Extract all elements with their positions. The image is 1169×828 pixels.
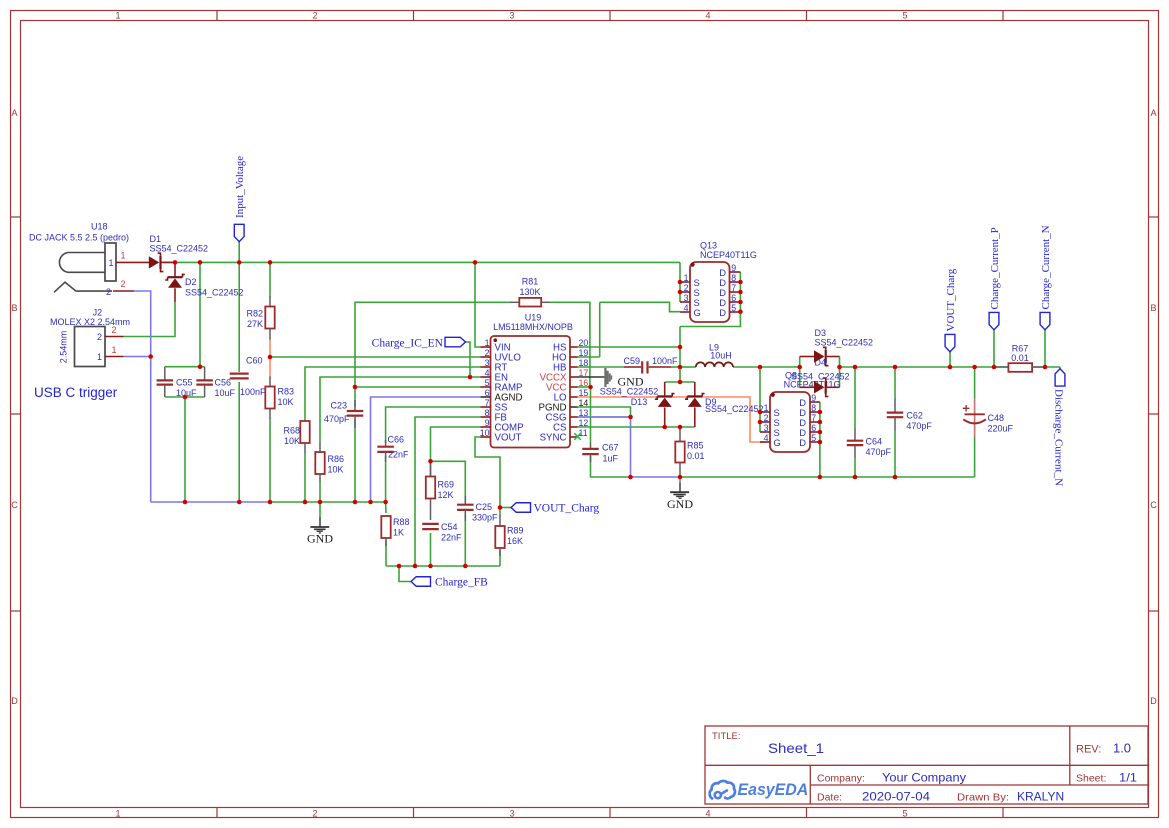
svg-text:VOUT: VOUT xyxy=(495,433,522,444)
wire R82 top xyxy=(269,262,271,296)
svg-text:6: 6 xyxy=(485,388,490,398)
diode D1 xyxy=(149,234,208,272)
wire switch node riser xyxy=(679,327,681,383)
junction at 895,477 xyxy=(893,475,898,480)
svg-text:3: 3 xyxy=(684,293,689,303)
no-connect X on SYNC pin 11 xyxy=(574,433,580,440)
junction at 185,502 xyxy=(183,500,188,505)
svg-text:Drawn By:: Drawn By: xyxy=(957,792,1009,804)
svg-text:D: D xyxy=(719,307,726,318)
junction at 819.9,422 xyxy=(818,420,823,425)
svg-text:U18: U18 xyxy=(91,222,108,232)
junction at 819.9,412 xyxy=(818,410,823,415)
junction at 994,367 xyxy=(992,365,997,370)
svg-text:D2: D2 xyxy=(185,277,197,287)
svg-text:3: 3 xyxy=(485,358,490,368)
wire VOUT_Charg flag lead xyxy=(500,507,511,509)
diode D4 xyxy=(791,358,850,397)
wire SS row to C66 xyxy=(386,407,481,443)
wire AGND purple row xyxy=(371,397,481,502)
junction at 819.9,442 xyxy=(818,440,823,445)
svg-text:D13: D13 xyxy=(631,397,648,407)
svg-text:Company:: Company: xyxy=(817,773,865,785)
svg-text:10K: 10K xyxy=(328,465,344,475)
junction at 430.5,461.3 xyxy=(428,459,433,464)
svg-text:Q13: Q13 xyxy=(700,240,717,250)
wire VOUT path xyxy=(475,437,500,515)
junction at 239.2,502 xyxy=(237,500,242,505)
svg-text:8: 8 xyxy=(811,403,816,413)
junction at 270,502 xyxy=(268,500,273,505)
wire D3 right vert xyxy=(839,357,841,388)
junction at 680,477 xyxy=(678,475,683,480)
junction at 839.5,367 xyxy=(837,365,842,370)
wire UVLO row xyxy=(270,356,481,358)
wire C66 bottom xyxy=(385,456,387,502)
capacitor C66 xyxy=(377,435,409,463)
svg-text:1K: 1K xyxy=(393,528,404,538)
junction at 270,357 xyxy=(268,355,273,360)
junction at 974.6,367 xyxy=(972,365,977,370)
svg-text:22nF: 22nF xyxy=(441,533,462,543)
junction at 680,382 xyxy=(678,380,683,385)
svg-text:9: 9 xyxy=(811,393,816,403)
svg-text:13: 13 xyxy=(579,408,589,418)
wire R81 left riser xyxy=(355,302,510,387)
wire C64 drop xyxy=(854,367,856,428)
svg-text:2: 2 xyxy=(111,325,116,335)
resistor R68 xyxy=(283,421,309,453)
svg-text:G: G xyxy=(774,437,781,448)
wire Q8 source riser xyxy=(759,367,761,432)
wire L9 left lead xyxy=(680,366,696,368)
svg-text:D4: D4 xyxy=(815,358,827,368)
wire R81 right down to VCC xyxy=(550,302,590,387)
svg-text:3: 3 xyxy=(764,423,769,433)
resistor R85 xyxy=(675,427,704,477)
svg-text:C59: C59 xyxy=(623,356,640,366)
junction at 760,412 xyxy=(758,410,763,415)
wire HO riser xyxy=(599,302,601,357)
svg-text:R68: R68 xyxy=(283,426,300,436)
Q13 pin 8 D xyxy=(730,281,741,283)
svg-text:330pF: 330pF xyxy=(472,513,498,523)
wire Q13 drain bus xyxy=(680,272,740,327)
svg-text:R81: R81 xyxy=(522,277,539,287)
svg-text:D1: D1 xyxy=(150,234,162,244)
wire R82-R83 orange link xyxy=(269,339,271,377)
svg-text:470pF: 470pF xyxy=(906,421,932,431)
svg-text:Discharge_Current_N: Discharge_Current_N xyxy=(1053,389,1065,486)
svg-text:R67: R67 xyxy=(1012,344,1029,354)
junction at 740.4,302 xyxy=(738,300,743,305)
svg-text:C55: C55 xyxy=(176,377,193,387)
wire C25 bottom xyxy=(464,514,466,566)
junction at 500,507.5 xyxy=(498,505,503,510)
wire R68 bottom xyxy=(304,452,306,502)
U19 pin 2 UVLO xyxy=(481,356,491,358)
svg-text:R69: R69 xyxy=(438,480,455,490)
junction at 819.9,477 xyxy=(818,475,823,480)
svg-text:220uF: 220uF xyxy=(988,423,1014,433)
diode D2 xyxy=(165,262,243,302)
inductor L9 xyxy=(696,343,733,368)
svg-text:Sheet:: Sheet: xyxy=(1076,773,1106,785)
svg-text:5: 5 xyxy=(811,433,816,443)
svg-text:7: 7 xyxy=(731,283,736,293)
wire ground rail purple segment xyxy=(151,501,270,503)
diode D3 xyxy=(800,328,873,366)
junction at 370.5,502 xyxy=(368,500,373,505)
U19 pin 11 SYNC xyxy=(570,436,578,438)
svg-text:5: 5 xyxy=(902,10,907,20)
svg-text:14: 14 xyxy=(579,398,589,408)
junction at 819.9,432 xyxy=(818,430,823,435)
wire C55 C56 bottom stem xyxy=(184,397,186,502)
Q13 pin 4 G xyxy=(680,311,690,313)
svg-text:C60: C60 xyxy=(246,356,263,366)
junction at 680,282 xyxy=(678,280,683,285)
junction at 385.6,502 xyxy=(383,500,388,505)
net flag Input_Voltage xyxy=(234,156,246,242)
svg-text:1uF: 1uF xyxy=(603,454,619,464)
wire C48 bottom xyxy=(974,437,976,477)
svg-text:2.54mm: 2.54mm xyxy=(59,331,69,364)
svg-text:D: D xyxy=(799,437,806,448)
svg-text:100nF: 100nF xyxy=(240,387,266,397)
svg-text:Input_Voltage: Input_Voltage xyxy=(234,156,246,218)
capacitor C23 xyxy=(324,400,363,428)
wire C59 right to switch node xyxy=(671,366,680,368)
wire R69 to C25 branch xyxy=(431,461,466,502)
Q13 pin 5 D xyxy=(730,311,741,313)
net flag Charge_Current_N xyxy=(1040,225,1052,329)
Q13 pin 3 S xyxy=(680,301,690,303)
svg-text:EasyEDA: EasyEDA xyxy=(738,781,809,799)
junction at 950,367 xyxy=(948,365,953,370)
wire L9 right to D3 xyxy=(733,366,800,368)
wire LO orange to Q8 gate xyxy=(578,397,765,442)
wire C62 bottom xyxy=(894,431,896,477)
svg-text:R85: R85 xyxy=(687,441,704,451)
svg-text:12K: 12K xyxy=(438,490,454,500)
svg-text:B: B xyxy=(1150,303,1156,313)
wire FB row xyxy=(415,417,481,566)
capacitor C67 xyxy=(582,443,618,464)
wire R88 bottom xyxy=(385,540,387,566)
resistor R69 xyxy=(426,461,454,500)
wire output gnd rail xyxy=(680,476,975,478)
U19 pin 5 RAMP xyxy=(481,386,491,388)
U19 pin 4 EN xyxy=(481,376,491,378)
wire diode cathode rail xyxy=(665,381,695,383)
junction at 740.4,292 xyxy=(738,290,743,295)
U19 pin 3 RT xyxy=(481,366,491,368)
junction at 680,427 xyxy=(678,425,683,430)
svg-text:27K: 27K xyxy=(247,319,263,329)
Q8 pin 2 S xyxy=(760,421,770,423)
svg-text:J2: J2 xyxy=(93,307,103,317)
svg-text:11: 11 xyxy=(579,428,588,438)
svg-text:C: C xyxy=(1150,500,1157,510)
svg-text:SS54_C22452: SS54_C22452 xyxy=(705,404,764,414)
svg-text:C23: C23 xyxy=(330,401,347,411)
svg-text:1/1: 1/1 xyxy=(1119,771,1137,785)
svg-text:SYNC: SYNC xyxy=(540,433,567,444)
svg-text:R88: R88 xyxy=(393,517,410,527)
junction at 680,292 xyxy=(678,290,683,295)
U19 pin 18 HB xyxy=(570,366,578,368)
svg-text:7: 7 xyxy=(811,413,816,423)
wire RT row to R68 xyxy=(305,367,481,421)
svg-text:19: 19 xyxy=(579,348,589,358)
wire C60 bottom xyxy=(238,382,240,502)
net flag Charge_IC_EN xyxy=(372,337,466,349)
resistor R89 xyxy=(495,515,523,556)
resistor R67 xyxy=(994,344,1045,372)
junction at 680,367 xyxy=(678,365,683,370)
svg-text:3: 3 xyxy=(509,808,514,818)
wire gate jog to Q13 G xyxy=(600,302,680,311)
wire HS row xyxy=(578,346,681,348)
wire R86 bottom xyxy=(319,482,321,502)
svg-text:Your Company: Your Company xyxy=(882,771,966,785)
junction at 270,262.4 xyxy=(268,260,273,265)
wire C54 bottom xyxy=(430,533,432,566)
title block xyxy=(705,726,1148,804)
capacitor C60 xyxy=(230,356,266,397)
ground symbol GND at left rail xyxy=(307,502,333,545)
svg-text:8: 8 xyxy=(485,408,490,418)
junction at 355,387 xyxy=(353,385,358,390)
net flag Charge_FB xyxy=(411,576,488,588)
Q13 pin 6 D xyxy=(730,301,741,303)
svg-text:1.0: 1.0 xyxy=(1113,742,1131,756)
wire COMP row to R69 xyxy=(431,427,481,477)
svg-text:6: 6 xyxy=(731,293,736,303)
svg-text:1: 1 xyxy=(97,352,102,362)
svg-text:D: D xyxy=(11,696,18,706)
transistor Q13 NCEP40T11G xyxy=(680,240,757,322)
svg-text:Charge_Current_N: Charge_Current_N xyxy=(1040,225,1052,309)
U19 pin 10 VOUT xyxy=(481,436,491,438)
junction at 399,566 xyxy=(397,564,402,569)
svg-text:1: 1 xyxy=(115,10,120,20)
junction at 740.4,311.7 xyxy=(738,309,743,314)
U19 pin 20 HS xyxy=(570,346,578,348)
svg-text:D: D xyxy=(1150,696,1157,706)
U19 pin 14 PGND xyxy=(570,406,578,408)
svg-text:A: A xyxy=(1150,108,1156,118)
ground flag GND arrow at VCCX xyxy=(578,368,644,389)
svg-text:130K: 130K xyxy=(519,287,540,297)
junction at 305,502 xyxy=(303,500,308,505)
wire C55-C56 top stem xyxy=(199,262,201,366)
EasyEDA logo xyxy=(710,781,809,799)
svg-text:SS54_C22452: SS54_C22452 xyxy=(791,371,850,381)
svg-text:0.01: 0.01 xyxy=(687,451,705,461)
junction at 799.7,367 xyxy=(797,365,802,370)
svg-text:GND: GND xyxy=(307,531,333,545)
svg-text:R86: R86 xyxy=(328,454,345,464)
svg-text:SS54_C22452: SS54_C22452 xyxy=(815,337,874,347)
U19 pin 8 FB xyxy=(481,416,491,418)
svg-text:C54: C54 xyxy=(441,522,458,532)
wire R83 bottom xyxy=(269,418,271,502)
resistor R81 xyxy=(510,277,550,307)
wire input rail from D1 to Q13 xyxy=(163,261,680,263)
junction at 430.5,566 xyxy=(428,564,433,569)
svg-text:R83: R83 xyxy=(278,387,295,397)
capacitor C64 xyxy=(847,428,892,458)
wire gnd rail purple segment xyxy=(631,476,681,478)
capacitor C56 xyxy=(196,367,235,398)
junction at 475,262.4 xyxy=(473,260,478,265)
svg-text:Date:: Date: xyxy=(817,792,842,804)
svg-text:470pF: 470pF xyxy=(866,447,892,457)
svg-text:4: 4 xyxy=(764,433,769,443)
Q13 pin 7 D xyxy=(730,291,741,293)
svg-text:C: C xyxy=(11,500,18,510)
wire C60 top xyxy=(238,262,240,372)
wire R69-C54 link xyxy=(430,497,432,520)
wire CSG purple xyxy=(578,416,631,418)
svg-text:SS54_C22452: SS54_C22452 xyxy=(150,244,209,254)
svg-text:10K: 10K xyxy=(284,436,300,446)
svg-text:10uH: 10uH xyxy=(710,351,732,361)
junction at 415,566 xyxy=(413,564,418,569)
net flag VOUT_Charg vertical xyxy=(945,268,957,352)
svg-text:2: 2 xyxy=(764,413,769,423)
wire ground rail green segment xyxy=(270,501,386,503)
Q13 pin 9 D xyxy=(730,271,741,273)
junction at 465.3,566 xyxy=(463,564,468,569)
svg-text:SS54_C22452: SS54_C22452 xyxy=(185,287,244,297)
junction at 895,367 xyxy=(893,365,898,370)
wire CSG purple drop xyxy=(630,417,632,477)
svg-text:GND: GND xyxy=(618,375,644,389)
junction at 185,397 xyxy=(183,395,188,400)
wire C64 bottom xyxy=(854,458,856,477)
capacitor C48 electrolytic xyxy=(963,398,1014,437)
capacitor C55 xyxy=(157,367,197,398)
wire J2 pin1 purple xyxy=(124,356,151,358)
svg-text:5: 5 xyxy=(485,378,490,388)
junction at 855,367 xyxy=(853,365,858,370)
junction at 200,262.4 xyxy=(198,260,203,265)
svg-text:VOUT_Charg: VOUT_Charg xyxy=(945,268,957,331)
wire Q8 drain bus to gnd rail xyxy=(819,402,821,477)
Q8 pin 1 S xyxy=(760,411,770,413)
wire Charge_FB flag lead xyxy=(399,566,411,582)
svg-text:2: 2 xyxy=(106,287,111,297)
junction at 630.5,417 xyxy=(628,415,633,420)
junction at 760,367 xyxy=(758,365,763,370)
svg-text:U19: U19 xyxy=(525,312,542,322)
svg-text:22nF: 22nF xyxy=(388,450,409,460)
svg-text:G: G xyxy=(694,307,701,318)
svg-text:5: 5 xyxy=(902,808,907,818)
junction at 239.2,262.4 xyxy=(237,260,242,265)
capacitor C25 xyxy=(457,496,498,523)
junction at 355,502 xyxy=(353,500,358,505)
capacitor C62 xyxy=(887,398,933,431)
svg-text:Charge_FB: Charge_FB xyxy=(435,576,488,588)
wire RAMP row xyxy=(355,386,481,388)
svg-text:A: A xyxy=(11,108,17,118)
junction at 470,377 xyxy=(468,375,473,380)
junction at 320,502 xyxy=(318,500,323,505)
wire HB row to C59 xyxy=(578,366,625,368)
svg-text:Charge_IC_EN: Charge_IC_EN xyxy=(372,337,444,349)
svg-text:2020-07-04: 2020-07-04 xyxy=(862,790,930,804)
junction at 1045,367 xyxy=(1043,365,1048,370)
capacitor C54 xyxy=(422,522,462,543)
Q8 pin 9 D xyxy=(810,401,820,403)
wire VCC drop to C67 xyxy=(590,387,592,443)
svg-text:1: 1 xyxy=(108,258,113,268)
U19 pin 6 AGND xyxy=(481,396,491,398)
svg-text:2: 2 xyxy=(684,283,689,293)
svg-text:USB C trigger: USB C trigger xyxy=(34,385,118,400)
net flag Discharge_Current_N xyxy=(1053,369,1065,486)
U19 pin 12 CS xyxy=(570,426,578,428)
svg-text:7: 7 xyxy=(485,398,490,408)
wire C23 bottom xyxy=(354,419,356,502)
net flag VOUT_Charg horizontal xyxy=(511,502,599,514)
Q8 pin 8 D xyxy=(810,411,820,413)
svg-text:C66: C66 xyxy=(388,435,405,445)
connector U18 DC jack xyxy=(29,222,149,298)
wire EN row to R86 xyxy=(320,377,481,442)
wire D2 anode to J2 pin2 xyxy=(124,302,176,337)
wire C55 C56 bottom tie xyxy=(165,396,205,398)
svg-text:6: 6 xyxy=(811,423,816,433)
svg-text:MOLEX X2 2.54mm: MOLEX X2 2.54mm xyxy=(50,317,130,327)
svg-text:DC JACK 5.5 2.5 (pedro): DC JACK 5.5 2.5 (pedro) xyxy=(29,233,129,243)
svg-text:GND: GND xyxy=(667,497,693,511)
svg-text:10uF: 10uF xyxy=(215,388,236,398)
resistor R82 xyxy=(246,296,274,340)
wire Input_Voltage flag stem xyxy=(238,242,240,263)
svg-text:0.01: 0.01 xyxy=(1011,353,1029,363)
U19 pin 17 VCCX xyxy=(570,376,578,378)
junction at 630.5,477 xyxy=(628,475,633,480)
svg-text:C56: C56 xyxy=(215,377,232,387)
IC U19 LM5118 xyxy=(480,312,589,447)
wire diode anode rail xyxy=(665,426,695,428)
svg-text:2: 2 xyxy=(120,279,125,289)
svg-text:10K: 10K xyxy=(278,397,294,407)
wire CS row xyxy=(578,426,665,428)
wire C62 drop xyxy=(894,367,896,398)
svg-text:2: 2 xyxy=(312,808,317,818)
svg-text:R89: R89 xyxy=(507,526,524,536)
svg-text:C25: C25 xyxy=(476,502,493,512)
svg-text:20: 20 xyxy=(579,338,589,348)
junction at 740.4,282 xyxy=(738,280,743,285)
U19 pin 1 VIN xyxy=(481,346,491,348)
svg-text:18: 18 xyxy=(579,358,589,368)
U19 pin 19 HO xyxy=(570,356,578,358)
svg-text:Charge_Current_P: Charge_Current_P xyxy=(989,227,1001,309)
wire Discharge flag stem xyxy=(1059,367,1061,369)
U19 pin 16 VCC xyxy=(570,386,578,388)
wire HO row xyxy=(578,356,600,358)
Q8 pin 4 G xyxy=(760,441,770,443)
Q13 pin 1 S xyxy=(680,281,690,283)
capacitor C59 xyxy=(623,356,678,374)
